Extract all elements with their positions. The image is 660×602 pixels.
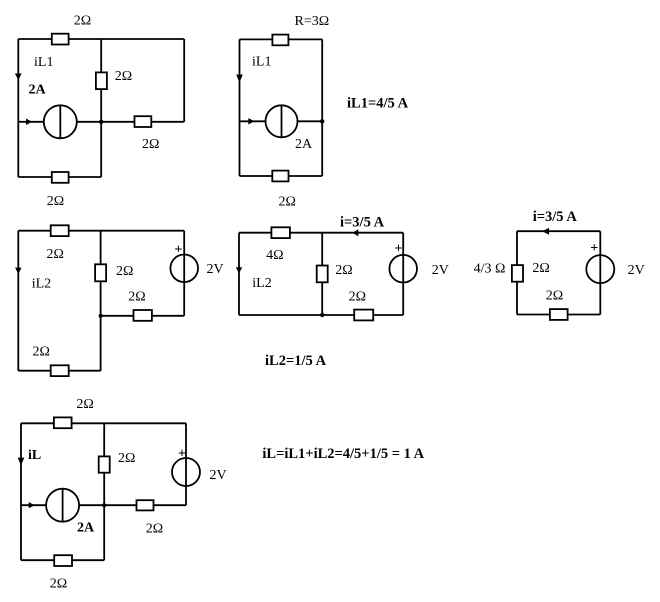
voltage source 2V C5 — [586, 255, 614, 283]
wire: C4 left vertical — [238, 233, 240, 315]
svg-text:2Ω: 2Ω — [47, 247, 64, 262]
svg-text:2Ω: 2Ω — [115, 69, 132, 84]
svg-text:2Ω: 2Ω — [118, 451, 135, 466]
resistor 2ohm C1 middle vertical — [96, 72, 107, 89]
resistor 2ohm C5 bottom — [550, 309, 568, 320]
svg-text:iL: iL — [28, 448, 41, 463]
arrow i left C4 — [352, 229, 358, 236]
wire: C2 right vertical — [321, 39, 323, 176]
svg-text:2V: 2V — [432, 263, 449, 278]
arrow iL1 down C1 — [15, 74, 22, 81]
svg-text:+: + — [590, 241, 598, 256]
wire: C4 right vertical — [402, 233, 404, 315]
resistor 2ohm C1 bottom — [52, 172, 69, 183]
svg-text:iL1=4/5 A: iL1=4/5 A — [347, 96, 409, 112]
resistor 2ohm C4 bottom-right — [354, 310, 373, 321]
wire: C4 bottom horizontal — [239, 314, 403, 316]
svg-text:iL2=1/5 A: iL2=1/5 A — [265, 353, 327, 369]
svg-text:2Ω: 2Ω — [74, 14, 91, 29]
resistor 2ohm C3 middle vertical — [95, 264, 106, 281]
resistor R=3ohm C2 top — [272, 35, 288, 46]
svg-text:2Ω: 2Ω — [532, 261, 549, 276]
arrow current right C1 — [26, 119, 32, 125]
svg-text:R=3Ω: R=3Ω — [295, 14, 330, 29]
wire: C3 middle horizontal — [101, 315, 185, 317]
svg-text:iL1: iL1 — [252, 55, 271, 70]
wire: C4 top horizontal — [239, 232, 403, 234]
wire: C1 right vertical — [183, 39, 185, 122]
wire: C5 right vertical — [599, 231, 601, 314]
voltage source 2V C3 — [170, 254, 198, 282]
resistor 2ohm C6 bottom — [54, 555, 72, 566]
wire: C3 bottom horizontal — [18, 370, 100, 372]
junction node C3 — [99, 314, 103, 318]
wire: C1 middle vertical — [100, 39, 102, 177]
svg-text:2Ω: 2Ω — [142, 137, 159, 152]
resistor 2ohm C1 middle-right — [135, 116, 152, 127]
wire: C3 left vertical — [17, 231, 19, 371]
resistor 2ohm C6 middle-right — [137, 500, 154, 510]
svg-text:i=3/5 A: i=3/5 A — [533, 209, 578, 225]
resistor 4ohm C4 top — [271, 227, 290, 238]
resistor 2ohm C6 middle vertical — [99, 456, 110, 472]
resistor 2ohm C4 middle vertical — [317, 266, 328, 283]
svg-text:2V: 2V — [210, 468, 227, 483]
arrow current right C6 — [29, 502, 35, 508]
wire: C2 middle horizontal — [240, 120, 323, 122]
wire: C6 middle vertical — [103, 423, 105, 560]
svg-text:iL=iL1+iL2=4/5+1/5 = 1 A: iL=iL1+iL2=4/5+1/5 = 1 A — [262, 446, 424, 462]
svg-text:2Ω: 2Ω — [335, 263, 352, 278]
svg-text:iL2: iL2 — [32, 276, 51, 291]
svg-text:2Ω: 2Ω — [128, 290, 145, 305]
wire: C6 left vertical — [20, 423, 22, 560]
svg-text:2V: 2V — [628, 263, 645, 278]
wire: C4 middle vertical — [321, 233, 323, 315]
svg-text:2Ω: 2Ω — [546, 289, 563, 304]
svg-text:4Ω: 4Ω — [266, 248, 283, 263]
wire: C5 top horizontal — [517, 230, 600, 232]
svg-text:2Ω: 2Ω — [116, 264, 133, 279]
current source 2A C6 — [46, 489, 79, 522]
arrow iL2 down C3 — [15, 268, 21, 274]
wire: C6 right vertical — [185, 423, 187, 505]
wire: C2 top horizontal — [240, 38, 323, 40]
svg-text:2V: 2V — [207, 262, 224, 277]
arrow current right C2 — [248, 118, 254, 124]
resistor 2ohm C3 top — [51, 225, 69, 236]
svg-text:2Ω: 2Ω — [279, 195, 296, 210]
junction node C1 — [99, 120, 103, 124]
arrow iL2 down C4 — [236, 267, 242, 273]
svg-text:2Ω: 2Ω — [33, 345, 50, 360]
svg-text:i=3/5 A: i=3/5 A — [340, 214, 385, 230]
wire: C2 left vertical — [239, 39, 241, 176]
wire: C1 top horizontal — [18, 38, 184, 40]
svg-text:4/3 Ω: 4/3 Ω — [474, 261, 506, 276]
resistor 2ohm C1 top — [52, 34, 69, 45]
junction node C6 — [102, 503, 106, 507]
arrow iL1 down C2 — [236, 75, 243, 83]
svg-text:iL2: iL2 — [252, 276, 271, 291]
voltage source 2V C4 — [389, 255, 417, 283]
wire: C6 middle horizontal — [21, 504, 186, 506]
resistor 2ohm C3 bottom — [51, 365, 69, 376]
svg-text:2Ω: 2Ω — [50, 577, 67, 592]
wire: C1 bottom horizontal — [18, 176, 101, 178]
svg-text:2A: 2A — [77, 520, 95, 535]
wire: C3 right vertical — [183, 231, 185, 316]
wire: C5 left vertical — [516, 231, 518, 314]
resistor 2ohm C3 middle-right — [134, 310, 152, 321]
svg-text:iL1: iL1 — [34, 55, 53, 70]
wire: C1 middle horizontal — [18, 121, 184, 123]
resistor 2ohm C6 top — [54, 417, 72, 428]
svg-text:2Ω: 2Ω — [349, 290, 366, 305]
svg-text:2Ω: 2Ω — [146, 521, 163, 536]
svg-text:+: + — [178, 446, 186, 461]
junction node C2 — [320, 119, 324, 123]
svg-text:2A: 2A — [295, 137, 313, 152]
svg-text:+: + — [174, 242, 182, 257]
wire: C2 bottom horizontal — [240, 175, 323, 177]
wire: C3 top horizontal — [18, 230, 184, 232]
svg-text:2A: 2A — [29, 83, 47, 98]
current source 2A C1 — [44, 105, 77, 138]
arrow i left C5 — [542, 228, 549, 235]
wire: C5 bottom horizontal — [517, 314, 600, 316]
resistor 2ohm C2 bottom — [272, 171, 288, 182]
wire: C3 middle vertical — [100, 231, 102, 371]
svg-text:2Ω: 2Ω — [47, 194, 64, 209]
resistor 4/3 ohm C5 left vertical — [512, 265, 523, 282]
arrow iL down C6 — [18, 458, 25, 466]
svg-text:+: + — [395, 242, 403, 257]
svg-text:2Ω: 2Ω — [76, 397, 93, 412]
wire: C6 bottom horizontal — [21, 559, 104, 561]
wire: C6 top horizontal — [21, 422, 186, 424]
voltage source 2V C6 — [172, 458, 200, 486]
current source 2A C2 — [266, 105, 298, 137]
wire: C1 left vertical — [17, 39, 19, 177]
junction node C4 — [320, 313, 324, 317]
